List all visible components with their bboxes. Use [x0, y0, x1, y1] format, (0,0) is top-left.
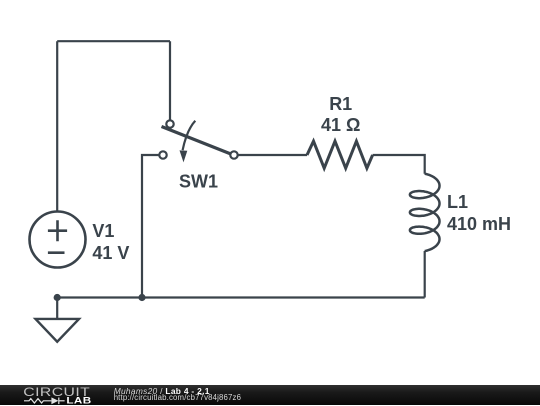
inductor L1	[410, 174, 440, 251]
svg-text:L1: L1	[447, 192, 468, 212]
wire from SW1 right terminal to R1	[238, 154, 308, 156]
svg-text:41 V: 41 V	[92, 243, 129, 263]
wire from SW1 left throw terminal down to bottom rail	[142, 155, 160, 298]
ground	[36, 298, 80, 342]
voltage source V1	[30, 212, 86, 268]
junction node at V1 and bottom rail	[54, 294, 61, 301]
wire down to SW1 pivot terminal	[169, 41, 171, 120]
wire from L1 down to bottom rail	[424, 251, 426, 298]
footer bar	[0, 385, 540, 406]
CircuitLab logo	[0, 385, 110, 406]
svg-text:V1: V1	[92, 221, 114, 241]
wire from V1 plus terminal up the left side	[56, 41, 58, 211]
svg-text:LAB: LAB	[66, 396, 91, 405]
junction node at SW1 branch and bottom rail	[138, 294, 145, 301]
footer title text	[114, 387, 210, 396]
svg-text:R1: R1	[329, 94, 352, 114]
switch SW1	[159, 120, 237, 162]
svg-text:41 Ω: 41 Ω	[321, 115, 360, 135]
svg-text:410 mH: 410 mH	[447, 214, 511, 234]
svg-text:SW1: SW1	[179, 171, 218, 191]
footer url text	[114, 393, 241, 402]
wire bottom rail	[57, 296, 425, 298]
wire from R1 to top right corner down to L1	[373, 155, 425, 174]
resistor R1	[307, 141, 373, 168]
wire top horizontal run	[57, 40, 170, 42]
